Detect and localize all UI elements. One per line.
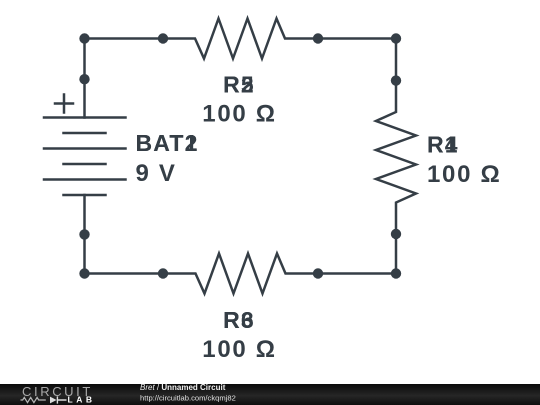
junction dot bottom-right corner xyxy=(391,268,401,278)
wire right-bottom segment xyxy=(395,234,398,274)
wire bottom-right segment xyxy=(318,272,396,275)
battery BAT1 BAT2 top terminal stub xyxy=(83,79,86,117)
junction dot top-left corner xyxy=(79,33,89,43)
svg-text:9 V: 9 V xyxy=(136,160,177,187)
junction dot battery top terminal xyxy=(79,74,89,84)
junction dot R2 left terminal xyxy=(158,33,168,43)
battery plate short 4 xyxy=(64,163,106,166)
footer bar xyxy=(0,384,540,405)
junction dot top-right corner xyxy=(391,33,401,43)
svg-text:R4: R4 xyxy=(427,132,459,158)
wire right-top segment xyxy=(395,39,398,81)
wire left-top segment xyxy=(83,39,86,80)
battery plate short 2 xyxy=(64,132,106,135)
battery plate long 5 xyxy=(44,178,126,181)
battery plus sign xyxy=(55,95,73,113)
svg-text:R2: R2 xyxy=(223,72,255,98)
resistor R1 R4 (overlapped) zigzag xyxy=(376,81,416,234)
wire top-right segment xyxy=(318,37,396,40)
junction dot battery bottom terminal xyxy=(79,229,89,239)
battery plate long 3 xyxy=(44,147,126,150)
resistor R3 R6 (overlapped) zigzag xyxy=(163,254,318,294)
wire bottom-left segment xyxy=(85,272,164,275)
battery bottom terminal stub xyxy=(83,195,86,234)
wire left-bottom segment xyxy=(83,234,86,273)
resistor R2 R5 (overlapped) zigzag xyxy=(163,19,318,59)
junction dot R4 bottom terminal xyxy=(391,229,401,239)
junction dot bottom-left corner xyxy=(79,268,89,278)
svg-text:Bret / Unnamed Circuit: Bret / Unnamed Circuit xyxy=(140,383,226,392)
svg-text:R6: R6 xyxy=(223,307,255,333)
junction dot R6 left terminal xyxy=(158,268,168,278)
junction dot R6 right terminal xyxy=(313,268,323,278)
svg-text:LAB: LAB xyxy=(68,395,96,405)
svg-text:100 Ω: 100 Ω xyxy=(202,336,276,363)
CircuitLab logo diode symbol xyxy=(50,397,57,404)
battery plate short 6 xyxy=(64,194,106,197)
wire top-left segment xyxy=(85,37,164,40)
svg-text:BAT2: BAT2 xyxy=(136,130,199,156)
junction dot R4 top terminal xyxy=(391,75,401,85)
svg-text:100 Ω: 100 Ω xyxy=(427,161,501,188)
svg-text:100 Ω: 100 Ω xyxy=(202,101,276,128)
svg-text:http://circuitlab.com/ckqmj82: http://circuitlab.com/ckqmj82 xyxy=(140,394,236,403)
battery plate long 1 xyxy=(44,116,126,119)
junction dot R2 right terminal xyxy=(313,33,323,43)
CircuitLab logo resistor squiggle xyxy=(21,397,46,402)
